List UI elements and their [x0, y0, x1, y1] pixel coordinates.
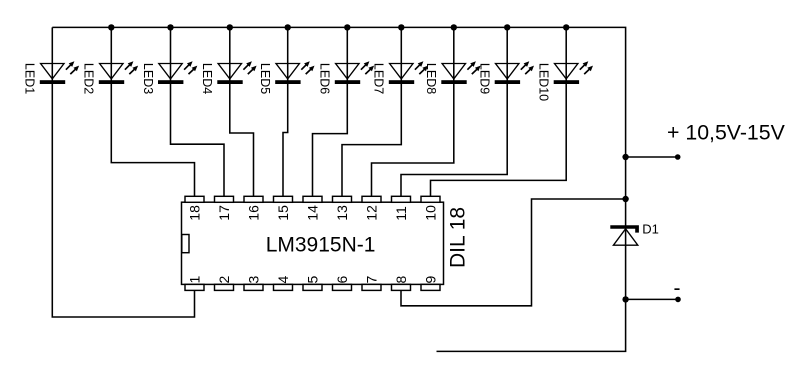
svg-text:LED3: LED3: [141, 63, 155, 94]
pin 1 box: [185, 284, 204, 290]
svg-text:1: 1: [186, 276, 202, 284]
pin 14 box: [303, 196, 322, 202]
LED symbol LED2: [99, 61, 138, 84]
LED symbol LED4: [217, 61, 256, 84]
svg-text:LED10: LED10: [537, 63, 551, 101]
wire LED10 net to pin 10: [431, 27, 567, 196]
svg-text:4: 4: [275, 276, 291, 284]
wire + terminal stub: [626, 156, 678, 158]
svg-text:15: 15: [275, 205, 291, 221]
wire pin 8 to V- rail: [401, 199, 626, 306]
junction dot rail at pin8 net: [622, 196, 628, 202]
svg-text:8: 8: [393, 276, 409, 284]
wire LED2 net to pin 18: [111, 27, 194, 196]
svg-text:LED6: LED6: [318, 63, 332, 94]
junction dot rail at + stub: [622, 154, 628, 160]
wire LED3 net to pin 17: [171, 27, 225, 196]
svg-text:16: 16: [245, 205, 261, 221]
LED D1 symbol LED1: [40, 61, 79, 84]
pin 17 box: [215, 196, 234, 202]
IC index notch: [182, 235, 189, 253]
wire LED1 net: anode rail to cathode, down to pin 1: [52, 27, 194, 317]
pin 4 box: [274, 284, 293, 290]
LED symbol LED3: [158, 61, 197, 84]
wire LED5 net to pin 15: [283, 27, 288, 196]
junction dots on top rail: [108, 24, 569, 30]
svg-text:3: 3: [245, 276, 261, 284]
wire LED4 net to pin 16: [230, 27, 254, 196]
pin 16 box: [244, 196, 263, 202]
svg-text:5: 5: [304, 276, 320, 284]
terminal dot -: [675, 297, 681, 303]
LED symbol LED8: [441, 61, 480, 84]
LED symbol LED9: [495, 61, 534, 84]
wire LED6 net to pin 14: [313, 27, 348, 196]
svg-text:LM3915N-1: LM3915N-1: [266, 234, 376, 257]
svg-text:DIL 18: DIL 18: [446, 207, 469, 268]
pin 12 box: [362, 196, 381, 202]
svg-text:-: -: [674, 277, 681, 300]
LED symbol LED6: [335, 61, 374, 84]
junction dot rail at - stub: [622, 296, 628, 302]
svg-text:LED1: LED1: [23, 63, 37, 94]
LED symbol LED5: [275, 61, 314, 84]
svg-text:LED7: LED7: [372, 63, 386, 94]
pin 3 box: [244, 284, 263, 290]
svg-text:13: 13: [334, 205, 350, 221]
svg-text:10: 10: [422, 205, 438, 221]
svg-text:+ 10,5V-15V: + 10,5V-15V: [667, 121, 786, 145]
wire V+ rail (top, right side, bottom stub): [52, 27, 625, 351]
wire LED7 net to pin 13: [342, 27, 401, 196]
wire - terminal stub: [626, 298, 678, 300]
pin 10 box: [421, 196, 440, 202]
wire LED9 net to pin 11: [401, 27, 507, 196]
pin 15 box: [274, 196, 293, 202]
svg-text:LED2: LED2: [82, 63, 96, 94]
svg-text:LED4: LED4: [200, 63, 214, 94]
pin 11 box: [392, 196, 411, 202]
zener diode D1 triangle: [613, 229, 637, 245]
pin 6 box: [333, 284, 352, 290]
LED symbol LED10: [554, 61, 593, 84]
LED symbol LED7: [389, 61, 428, 84]
svg-text:LED9: LED9: [478, 63, 492, 94]
svg-text:18: 18: [186, 205, 202, 221]
svg-text:14: 14: [304, 205, 320, 221]
wire LED8 net to pin 12: [372, 27, 454, 196]
svg-text:12: 12: [363, 205, 379, 221]
svg-text:6: 6: [334, 276, 350, 284]
svg-text:D1: D1: [642, 222, 659, 237]
svg-text:LED5: LED5: [258, 63, 272, 94]
pin 9 box: [421, 284, 440, 290]
pin 2 box: [215, 284, 234, 290]
svg-text:7: 7: [363, 276, 379, 284]
terminal dot +: [675, 154, 681, 160]
svg-text:17: 17: [216, 205, 232, 221]
pin 5 box: [303, 284, 322, 290]
IC U1 LM3915N-1 body: [182, 202, 444, 284]
pin 13 box: [333, 196, 352, 202]
pin 7 box: [362, 284, 381, 290]
pin 8 box: [392, 284, 411, 290]
svg-text:LED8: LED8: [424, 63, 438, 94]
pin 18 box: [185, 196, 204, 202]
svg-text:9: 9: [422, 276, 438, 284]
zener diode D1 cathode bar: [610, 225, 639, 232]
svg-text:11: 11: [393, 206, 409, 221]
svg-text:2: 2: [216, 276, 232, 284]
